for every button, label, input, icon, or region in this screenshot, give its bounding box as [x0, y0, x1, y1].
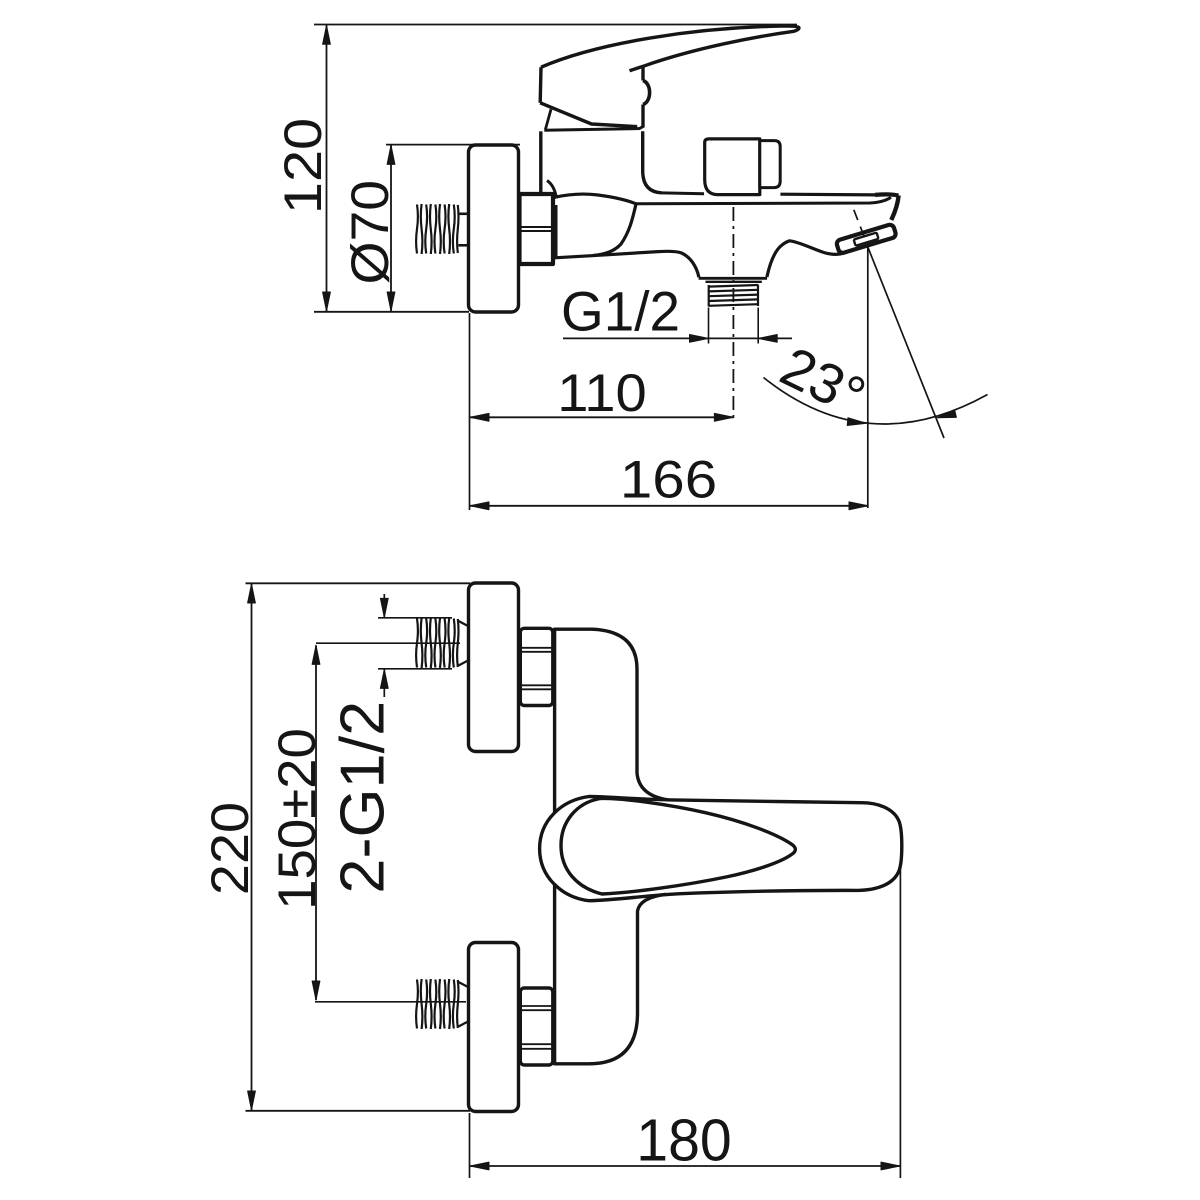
dome left edge: [545, 109, 551, 129]
diverter knob tab: [760, 141, 780, 188]
cap line under handle: [544, 126, 643, 130]
handle front vertical edge upper: [641, 66, 644, 81]
shelf line left of diverter knob: [662, 191, 705, 195]
svg-text:110: 110: [557, 363, 647, 422]
body end cap behind nut: [555, 205, 558, 257]
aerator axis dashed line: [854, 210, 868, 246]
dimension line 110: [470, 416, 733, 418]
shower outlet collar: [699, 277, 768, 280]
dimension line 120: [326, 25, 328, 311]
dimension line diameter 70: [390, 145, 392, 311]
dimension line G1/2: [563, 337, 792, 339]
extension line bottom left: [314, 311, 469, 313]
water stream vertical line: [867, 247, 869, 508]
body hump to spout top: [554, 194, 637, 204]
spout underside left of outlet: [555, 251, 699, 277]
thread extension lines: [708, 308, 710, 344]
handle inner ridge (teardrop, plan): [561, 798, 795, 894]
svg-text:166: 166: [620, 450, 717, 509]
svg-text:Ø70: Ø70: [341, 180, 400, 284]
extension line for diameter 70 top: [386, 144, 520, 146]
svg-text:220: 220: [200, 802, 259, 895]
upper escutcheon (plan): [469, 583, 519, 752]
spout tip edge: [891, 196, 898, 221]
lever handle outline: [541, 26, 799, 71]
tolerance tick lines +-20: [378, 617, 452, 619]
body shoulder curl above nut: [547, 181, 557, 199]
indicator dot on handle: [643, 81, 650, 105]
handle front vertical edge lower: [641, 105, 644, 128]
upper nipple thread (plan): [416, 618, 458, 668]
extension line 180 left: [469, 1113, 471, 1178]
lower nipple taper: [459, 982, 469, 987]
lower nipple thread (plan): [416, 979, 458, 1029]
svg-text:150±20: 150±20: [268, 728, 327, 910]
lower nipple center extension: [315, 1001, 466, 1003]
upper hex nut (plan): [520, 628, 553, 705]
faucet body trunk lower part (plan): [555, 884, 666, 1064]
svg-text:120: 120: [273, 118, 332, 214]
extension line 220 bottom: [246, 1110, 471, 1112]
handle outer outline (plan): [540, 797, 902, 901]
wall nipple thread (side view): [416, 204, 458, 254]
shower outlet thread G1/2: [709, 285, 759, 307]
escutcheon (side view): [469, 145, 519, 312]
faucet body trunk upper part (plan): [555, 629, 668, 813]
handle skirt: [540, 103, 637, 127]
tolerance arrows: [383, 594, 385, 617]
outlet center line: [732, 207, 734, 423]
dimension line 150+-20: [315, 645, 317, 1000]
diverter knob: [705, 139, 760, 195]
nipple pipe to escutcheon: [459, 213, 469, 216]
dimension line 166: [470, 505, 868, 507]
dimension line 180: [470, 1165, 900, 1167]
aerator on spout tip: [836, 224, 897, 254]
extension line 220 top: [246, 582, 471, 584]
extension line top (handle tip level): [314, 24, 797, 26]
angle arc 23deg: [764, 378, 988, 424]
spout top edge: [636, 197, 891, 204]
spout underside right of outlet to aerator: [767, 241, 844, 277]
svg-text:2-G1/2: 2-G1/2: [328, 701, 397, 894]
dimension line 220: [251, 584, 253, 1110]
upper nipple taper: [459, 621, 469, 626]
svg-text:180: 180: [636, 1108, 731, 1174]
upper nipple center extension: [316, 642, 460, 644]
extension line 180 right: [899, 862, 901, 1178]
hex nut (side view): [520, 194, 554, 264]
handle left edge: [539, 67, 543, 103]
water stream slanted line 23deg: [868, 247, 944, 438]
lower hex nut (plan): [520, 988, 553, 1065]
cartridge body left edge: [539, 131, 542, 193]
lower escutcheon (plan): [469, 943, 519, 1112]
svg-text:G1/2: G1/2: [561, 280, 680, 343]
body front bulge curve: [593, 204, 636, 256]
wall extension line below escutcheon: [469, 313, 471, 510]
spout tip top: [875, 194, 899, 195]
shelf line right of knob: [780, 193, 875, 197]
cartridge body right edge with fillet to shelf: [643, 131, 662, 193]
